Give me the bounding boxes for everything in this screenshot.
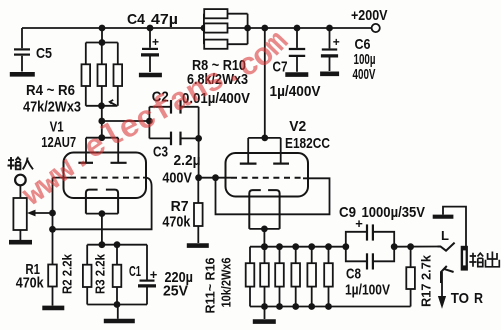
wire: R2 top lead xyxy=(86,245,88,265)
node: top bus junction xyxy=(276,243,283,250)
ground under pot xyxy=(9,240,32,245)
svg-text:C9: C9 xyxy=(339,204,356,221)
wire: cathode bus R2-C1 xyxy=(87,244,147,246)
node: bottom bus at R3 xyxy=(114,301,121,308)
svg-text:470k: 470k xyxy=(16,274,45,291)
svg-text:+: + xyxy=(152,35,159,49)
wire: R8-R10 left connector xyxy=(203,14,205,45)
wire: R2 bottom lead xyxy=(86,287,88,305)
wire: tip bar to sleeve xyxy=(443,207,466,247)
wire: R7 bottom lead xyxy=(197,226,199,243)
arrow tick on R4-R6 bus xyxy=(110,100,117,106)
wire: V2 grid loop (around bottom) xyxy=(216,178,330,215)
svg-text:E182CC: E182CC xyxy=(285,135,330,152)
label 输入 (input) xyxy=(8,157,34,170)
ground under C7 xyxy=(285,72,308,77)
wire: V1 plate tie bar xyxy=(86,137,118,139)
wire: plate node drop from R4-R6 xyxy=(101,106,103,138)
wire: V2 right plate lead xyxy=(280,138,282,164)
node: rail junction at C4 xyxy=(147,25,154,32)
svg-text:R11~ R16: R11~ R16 xyxy=(202,258,217,314)
capacitor C7 xyxy=(296,28,298,48)
node: wiper junction xyxy=(49,210,56,217)
svg-text:47k/2Wx3: 47k/2Wx3 xyxy=(23,99,81,116)
capacitor C9 (electrolytic 1000u/35V) xyxy=(346,232,366,247)
capacitor C6 (electrolytic 100u) xyxy=(329,28,331,48)
terminal +200V xyxy=(372,24,380,32)
wire: R16 bottom lead xyxy=(328,287,330,307)
ground under C4 xyxy=(139,73,162,78)
svg-text:1µ/400V: 1µ/400V xyxy=(270,83,321,100)
wire: rail to C4 xyxy=(149,28,151,48)
wire: V1 grid to input node xyxy=(53,177,71,179)
wire: R3 bottom lead xyxy=(116,287,118,305)
wire: V2 cathode to output bus xyxy=(263,229,265,247)
svg-text:C8: C8 xyxy=(346,265,361,282)
ground under R2/R3/C1 xyxy=(104,319,135,324)
ground under R11-R16 xyxy=(253,319,276,324)
node: grid loop junction xyxy=(49,226,56,233)
resistor R1 xyxy=(48,265,57,287)
wire: R4-R6 bottom bus xyxy=(86,105,118,107)
node: top bus junction xyxy=(292,243,299,250)
capacitor C3 xyxy=(149,137,170,139)
capacitor C1 (electrolytic 220u) xyxy=(146,245,148,280)
resistor R11 xyxy=(246,263,255,286)
node: bottom bus junction xyxy=(261,303,268,310)
wire: ground stem under R3 xyxy=(117,305,119,319)
resistor R10 xyxy=(204,40,227,49)
wire: R12 bottom lead xyxy=(264,287,266,307)
wire: input to pot xyxy=(19,185,21,198)
svg-text:C4: C4 xyxy=(127,11,146,28)
wire: bottom ground bus xyxy=(250,306,411,308)
jack L contact xyxy=(438,243,455,251)
wire: V2 plate tie bar xyxy=(248,137,281,139)
node: plate node / coupling tap xyxy=(98,118,105,125)
node: rail at R8-R10 left xyxy=(201,25,208,32)
jack sleeve xyxy=(461,246,468,271)
resistor R12 xyxy=(260,263,269,286)
wire: R17 bottom lead xyxy=(410,289,412,307)
node: rail junction C6 xyxy=(326,25,333,32)
node: bottom bus junction xyxy=(308,303,315,310)
node: rail junction V2 plates xyxy=(261,25,268,32)
svg-text:25V: 25V xyxy=(163,283,188,300)
wire: output node xyxy=(394,246,437,248)
resistor R16 xyxy=(324,263,333,286)
node: C3 junction xyxy=(195,135,202,142)
node: R4-R6 top bus junction xyxy=(99,39,106,46)
svg-text:1µ/100V: 1µ/100V xyxy=(345,282,390,299)
wire: R13 top lead xyxy=(279,247,281,264)
wire: R15 top lead xyxy=(311,247,313,264)
wire: ground stem R11-R16 xyxy=(264,307,266,320)
svg-text:47µ: 47µ xyxy=(151,11,178,28)
node: V2 cathode at bus xyxy=(261,243,268,250)
wire: R14 bottom lead xyxy=(295,287,297,307)
wire: R13 bottom lead xyxy=(279,287,281,307)
node: bottom bus junction xyxy=(325,303,332,310)
wire: V1 right plate lead xyxy=(117,138,119,163)
node: rail junction C7 xyxy=(294,25,301,32)
svg-text:R3 2.2k: R3 2.2k xyxy=(93,253,108,294)
wire: bottom bus R2-C1 xyxy=(87,304,147,306)
svg-text:C3: C3 xyxy=(153,143,168,160)
svg-text:L: L xyxy=(441,228,449,243)
node: cathode bus at R3 xyxy=(114,241,121,248)
node: grid loop tap xyxy=(212,174,219,181)
wire: rail to R4-R6 top bus xyxy=(101,28,103,43)
wire: grid node to V2 xyxy=(199,177,231,179)
ground under C5 xyxy=(10,72,35,77)
resistor R13 xyxy=(275,263,284,286)
wire: V2 cathode joiner xyxy=(249,228,279,230)
wire: C5 top lead corner xyxy=(21,28,23,48)
node: V1 cathode junction xyxy=(99,210,106,217)
svg-text:400V: 400V xyxy=(162,169,192,186)
svg-text:+200V: +200V xyxy=(351,7,388,24)
svg-text:C5: C5 xyxy=(36,45,52,62)
V1 plate left xyxy=(78,162,93,164)
jack tip bar xyxy=(433,215,454,219)
wire: C2/C3 left bracket xyxy=(148,107,150,139)
wire: V1 cathode to R2/R3 bus xyxy=(101,214,103,245)
wire: coupling tap to C2/C3 bracket xyxy=(102,120,150,122)
wire: cathode top bus xyxy=(250,246,346,248)
tube V1 envelope xyxy=(64,153,147,199)
svg-text:+: + xyxy=(150,267,158,282)
wire: rail drop to V2 plates xyxy=(264,28,266,138)
wire: R12 top lead xyxy=(264,247,266,264)
V1 plate right xyxy=(111,162,127,164)
svg-text:R4 ~ R6: R4 ~ R6 xyxy=(26,82,75,99)
svg-text:400V: 400V xyxy=(353,66,376,83)
wire: V1 right grid loop xyxy=(53,178,152,230)
svg-text:1000µ/35V: 1000µ/35V xyxy=(362,204,426,221)
wire: input node vertical xyxy=(52,178,54,265)
ground under C6 xyxy=(320,72,339,77)
wire: R14 top lead xyxy=(295,247,297,264)
jack R contact xyxy=(441,266,454,283)
node: top bus junction xyxy=(325,243,332,250)
node: bottom bus junction xyxy=(276,303,283,310)
node: R17 junction xyxy=(407,243,414,250)
resistor R14 xyxy=(291,263,300,286)
svg-text:+: + xyxy=(333,35,340,49)
node: cathode bus at V1 drop xyxy=(99,241,106,248)
wire: V2 left plate lead xyxy=(247,138,249,164)
svg-text:V1: V1 xyxy=(50,119,64,136)
svg-text:TO: TO xyxy=(451,290,470,307)
resistor R15 xyxy=(307,263,316,286)
node: coupling right junction xyxy=(391,243,398,250)
capacitor C4 (electrolytic 47u) xyxy=(142,48,158,50)
resistor R8 xyxy=(204,9,227,18)
V2 plate left xyxy=(240,163,257,165)
wire: C2/C3 right vertical to grid xyxy=(198,107,200,178)
resistor R6 xyxy=(114,64,123,86)
resistor R4 xyxy=(82,64,91,86)
TO R arrow xyxy=(441,272,443,297)
node: coupling left junction xyxy=(342,243,349,250)
svg-text:C1: C1 xyxy=(129,263,141,280)
wire: R6 top lead xyxy=(117,43,119,65)
wire: R5 bottom lead xyxy=(101,86,103,106)
pot wiper arrow xyxy=(31,212,53,214)
V2 grid (dashed) xyxy=(231,177,303,179)
terminal: input jack circle xyxy=(15,175,26,186)
node: top bus junction xyxy=(261,243,268,250)
svg-text:R2 2.2k: R2 2.2k xyxy=(60,253,75,294)
capacitor C2 xyxy=(149,106,170,108)
ground under R7 xyxy=(187,243,209,248)
V2 plate right xyxy=(273,163,289,165)
wire: R16 top lead xyxy=(328,247,330,264)
wire: R17 top lead xyxy=(410,247,412,268)
resistor R17 xyxy=(406,267,415,289)
node: V2 grid node xyxy=(195,174,202,181)
wire: R11 top lead xyxy=(249,247,251,264)
wire: pot to ground xyxy=(19,230,21,240)
node: top bus junction xyxy=(308,243,315,250)
svg-text:V2: V2 xyxy=(289,118,306,135)
svg-text:470k: 470k xyxy=(162,213,191,230)
svg-text:2.2µ: 2.2µ xyxy=(174,152,201,169)
resistor R9 xyxy=(204,23,227,32)
wire: R5 top lead xyxy=(101,43,103,65)
svg-text:R17 2.7k: R17 2.7k xyxy=(419,254,434,307)
capacitor C5 xyxy=(14,48,30,50)
node: V2 plate tie junction xyxy=(261,135,268,142)
node: bottom bus junction xyxy=(292,303,299,310)
resistor R7 xyxy=(194,203,203,226)
wire: R11 bottom lead xyxy=(249,287,251,307)
capacitor C8 xyxy=(346,247,366,262)
wire: V1 left plate lead xyxy=(85,138,87,163)
ground under R1 xyxy=(42,306,64,311)
wire: R4-R6 top bus xyxy=(86,42,118,44)
wire: R3 top lead xyxy=(116,245,118,265)
wire: R7 top lead xyxy=(197,178,199,203)
V1 cathode xyxy=(86,190,118,214)
wire: R8-R10 right connector xyxy=(247,14,249,45)
wire: R4 top lead xyxy=(85,43,87,65)
svg-text:R: R xyxy=(474,290,483,307)
potentiometer (volume) xyxy=(13,198,26,230)
wire: top B+ rail xyxy=(22,27,372,29)
node: rail at R8-R10 right xyxy=(244,25,251,32)
node: V1 plate tie junction xyxy=(98,134,105,141)
node: V2 cathode junction xyxy=(261,226,268,233)
label 输出 (output) xyxy=(469,252,499,267)
wire: V1 cathode joiner xyxy=(86,213,118,215)
resistor R2 xyxy=(83,265,92,287)
node: rail junction at R4-R6 xyxy=(99,25,106,32)
svg-text:10k/2Wx6: 10k/2Wx6 xyxy=(219,258,234,308)
tube V2 envelope xyxy=(226,153,309,197)
node: bracket junction xyxy=(146,118,153,125)
resistor R3 xyxy=(113,265,122,287)
wire: R4 bottom lead xyxy=(85,86,87,106)
V2 cathode xyxy=(249,190,279,229)
wire: R10 right lead xyxy=(228,43,248,45)
resistor R5 xyxy=(98,64,107,86)
node: R4-R6 bottom junction xyxy=(98,102,105,109)
wire: R15 bottom lead xyxy=(311,287,313,307)
wire: R8 right lead xyxy=(228,13,248,15)
V1 grid (dashed) xyxy=(70,177,143,179)
wire: R6 bottom lead xyxy=(117,86,119,106)
watermark www.elecfans.com xyxy=(31,28,302,206)
